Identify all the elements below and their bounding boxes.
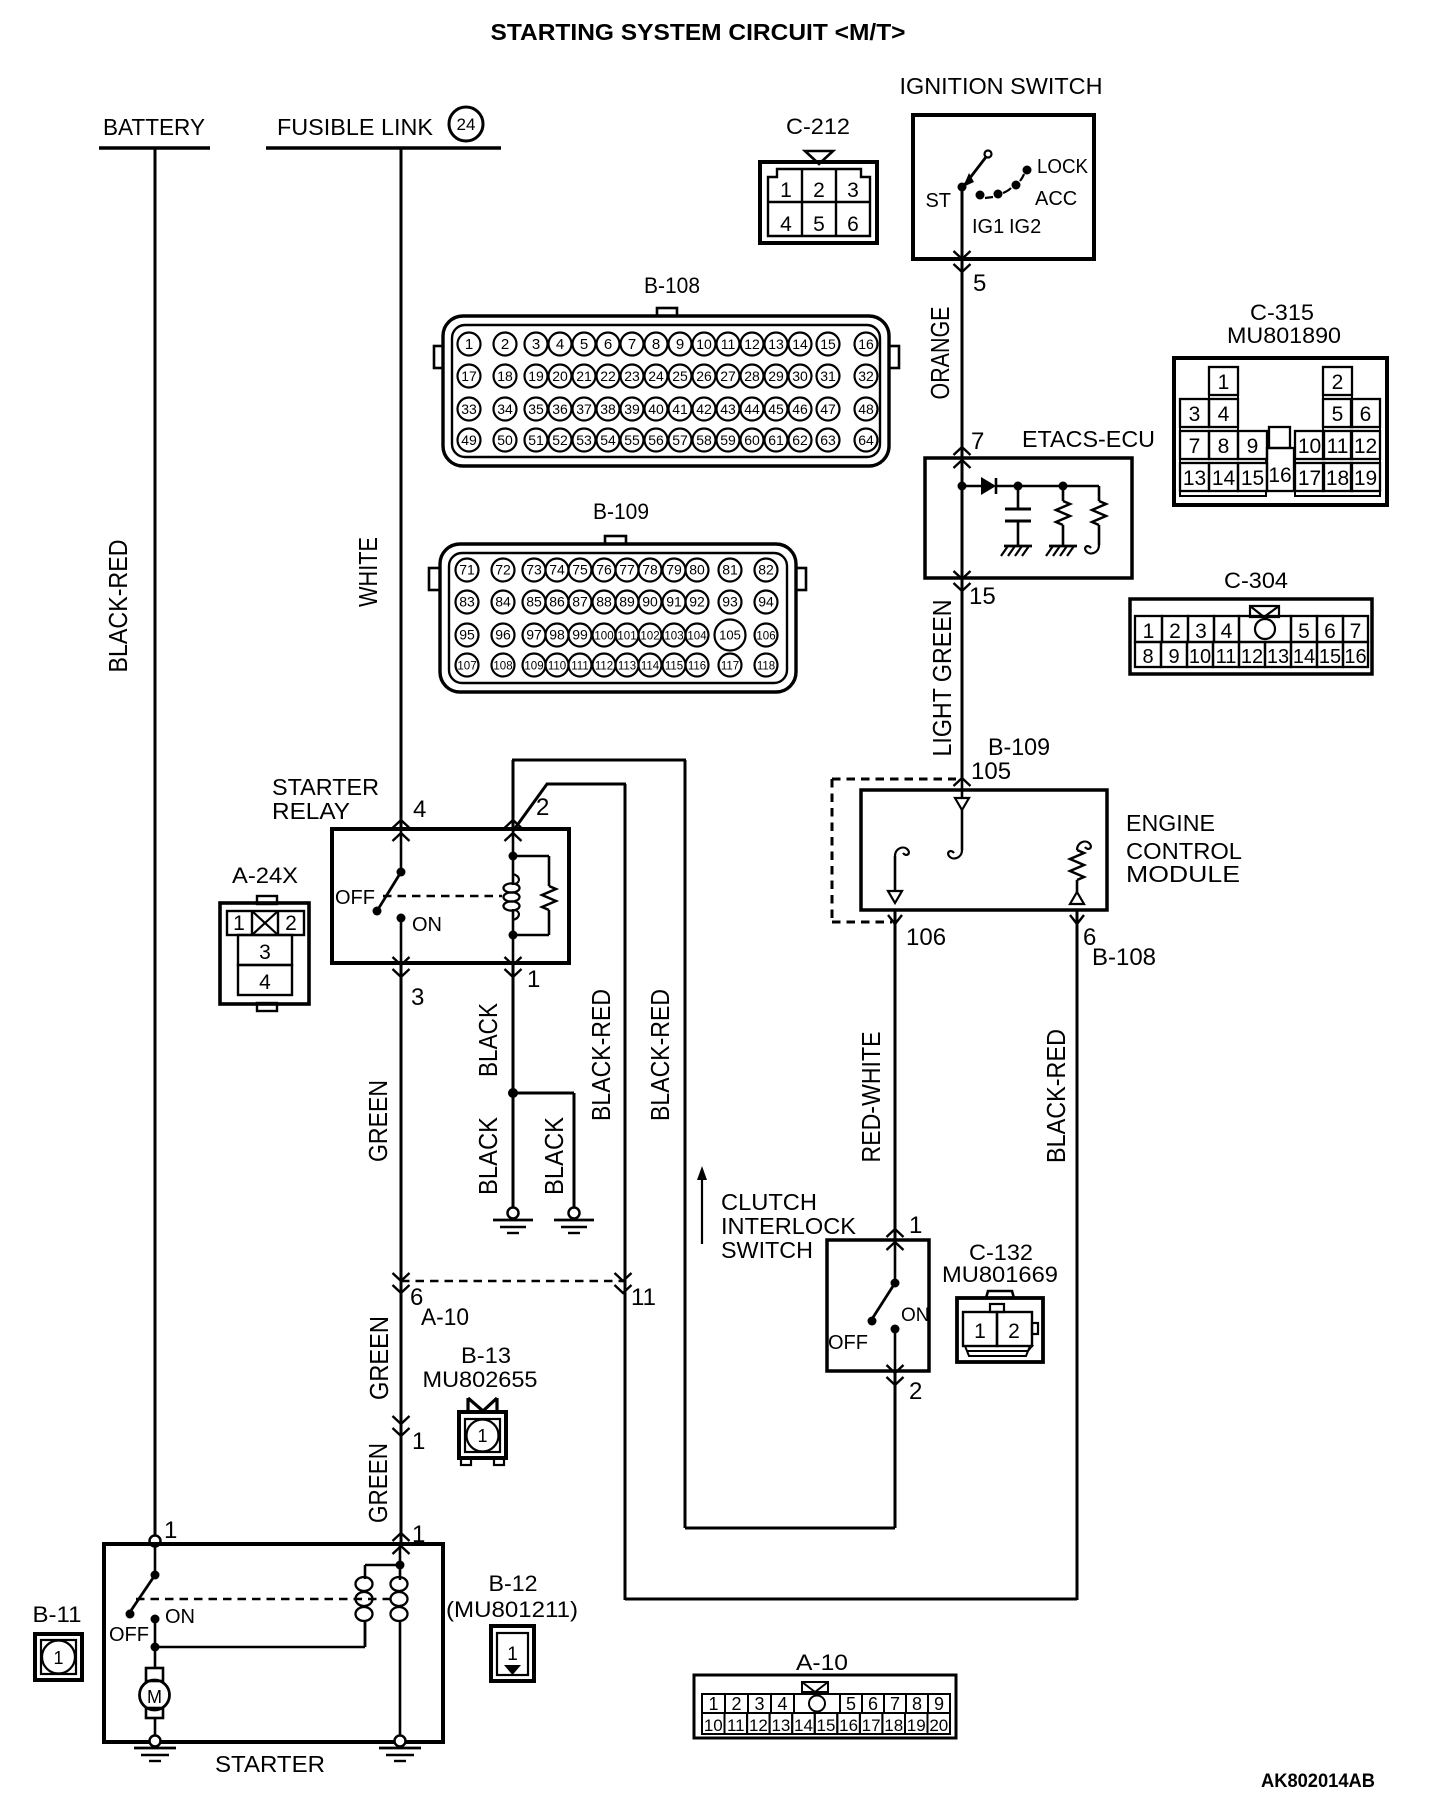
- svg-text:78: 78: [642, 562, 658, 578]
- svg-text:1: 1: [909, 1212, 922, 1239]
- svg-text:5: 5: [1332, 403, 1344, 426]
- wire label BLACK-RED (x=685 rail): [645, 989, 675, 1121]
- svg-text:10: 10: [1298, 435, 1321, 458]
- svg-text:ACC: ACC: [1035, 188, 1077, 210]
- svg-text:62: 62: [792, 432, 808, 448]
- svg-text:8: 8: [912, 1694, 922, 1714]
- svg-text:84: 84: [495, 594, 511, 610]
- svg-text:73: 73: [526, 562, 542, 578]
- svg-text:RED-WHITE: RED-WHITE: [856, 1032, 886, 1163]
- svg-text:5: 5: [813, 213, 825, 236]
- svg-text:2: 2: [1332, 371, 1344, 394]
- ground under right black wire: [554, 1208, 594, 1234]
- svg-text:STARTING SYSTEM CIRCUIT <M/T>: STARTING SYSTEM CIRCUIT <M/T>: [491, 19, 906, 45]
- svg-text:1: 1: [412, 1428, 425, 1455]
- capacitor C1: [1005, 482, 1031, 547]
- svg-text:ORANGE: ORANGE: [925, 307, 955, 400]
- wire relay pin 2 diagonal branch to x=625 rail: [513, 784, 626, 1600]
- svg-text:101: 101: [617, 631, 636, 643]
- svg-text:105: 105: [971, 758, 1011, 785]
- connector B-11: [33, 1602, 83, 1680]
- clutch interlock switch box: [827, 1240, 929, 1371]
- svg-text:IG2: IG2: [1009, 216, 1041, 238]
- svg-text:98: 98: [549, 627, 565, 643]
- svg-text:3: 3: [1189, 403, 1201, 426]
- ground (hatched) under capacitor: [1001, 546, 1032, 556]
- svg-text:24: 24: [648, 368, 664, 384]
- svg-text:113: 113: [618, 661, 636, 673]
- starter switch: [109, 1544, 195, 1652]
- svg-text:19: 19: [528, 368, 544, 384]
- svg-text:27: 27: [720, 368, 736, 384]
- connector B-12 (MU801211): [446, 1571, 578, 1681]
- svg-text:36: 36: [552, 401, 568, 417]
- wire relay pin 1 to ground (BLACK): [512, 963, 515, 1213]
- svg-text:LOCK: LOCK: [1037, 156, 1089, 178]
- svg-text:112: 112: [595, 661, 613, 673]
- svg-text:57: 57: [672, 432, 688, 448]
- svg-text:35: 35: [528, 401, 544, 417]
- svg-text:7: 7: [1189, 435, 1201, 458]
- relay coil parallel resistor: [513, 856, 556, 935]
- wire battery to starter (BLACK-RED): [154, 148, 157, 1539]
- svg-text:109: 109: [524, 661, 543, 673]
- svg-text:B-12: B-12: [489, 1571, 538, 1596]
- svg-text:B-13: B-13: [461, 1343, 511, 1368]
- svg-text:92: 92: [689, 594, 705, 610]
- svg-text:4: 4: [780, 213, 792, 236]
- starter relay box: [332, 829, 569, 963]
- svg-text:38: 38: [600, 401, 616, 417]
- svg-text:7: 7: [628, 336, 636, 353]
- svg-text:M: M: [147, 1687, 162, 1707]
- svg-text:50: 50: [497, 432, 513, 448]
- svg-text:6: 6: [604, 336, 612, 353]
- svg-text:115: 115: [665, 661, 683, 673]
- wire bottom rail x=685 to clutch pin 2: [685, 1527, 895, 1530]
- pin 15 label: [969, 583, 996, 610]
- starter solenoid pull-in coil: [356, 1565, 401, 1647]
- svg-text:RELAY: RELAY: [272, 798, 350, 824]
- svg-text:5: 5: [1298, 620, 1310, 643]
- svg-text:3: 3: [847, 179, 859, 202]
- svg-text:100: 100: [594, 631, 613, 643]
- relay switch (OFF/ON): [335, 829, 442, 963]
- svg-text:15: 15: [969, 583, 996, 610]
- svg-text:15: 15: [1241, 467, 1264, 490]
- svg-text:86: 86: [549, 594, 565, 610]
- svg-text:74: 74: [549, 562, 565, 578]
- A-10 pin 6 label: [410, 1284, 469, 1331]
- svg-text:29: 29: [768, 368, 784, 384]
- svg-text:79: 79: [666, 562, 682, 578]
- svg-text:19: 19: [1354, 467, 1377, 490]
- wire label BLACK-RED (x=625 rail): [586, 989, 616, 1121]
- wire label GREEN (lower): [363, 1443, 393, 1523]
- svg-text:106: 106: [756, 631, 775, 643]
- svg-text:ST: ST: [925, 190, 951, 212]
- wire label BLACK (upper): [473, 1002, 503, 1077]
- clutch switch contacts: [828, 1240, 930, 1371]
- svg-text:3: 3: [532, 336, 540, 353]
- ground under starter solenoid: [379, 1736, 421, 1762]
- svg-text:46: 46: [792, 401, 808, 417]
- svg-text:64: 64: [858, 432, 874, 448]
- svg-text:103: 103: [664, 631, 683, 643]
- svg-text:3: 3: [1195, 620, 1207, 643]
- ground under left black wire: [493, 1208, 533, 1234]
- document number AK802014AB: [1261, 1771, 1375, 1792]
- svg-text:MU802655: MU802655: [423, 1367, 538, 1392]
- svg-text:4: 4: [259, 971, 271, 994]
- svg-text:49: 49: [461, 432, 477, 448]
- svg-text:4: 4: [777, 1694, 787, 1714]
- resistor R2 (to internal circuit): [1085, 486, 1106, 553]
- ECM internal: input 105 contact: [948, 779, 969, 858]
- svg-text:7: 7: [1350, 620, 1362, 643]
- ENGINE CONTROL MODULE label: [1126, 810, 1242, 887]
- svg-text:1: 1: [477, 1426, 487, 1446]
- svg-text:4: 4: [1221, 620, 1233, 643]
- svg-text:2: 2: [285, 912, 297, 935]
- relay internal dashed link: [383, 895, 502, 897]
- svg-text:90: 90: [642, 594, 658, 610]
- STARTER RELAY label: [272, 774, 379, 824]
- svg-text:43: 43: [720, 401, 736, 417]
- svg-text:107: 107: [457, 661, 476, 673]
- svg-text:A-10: A-10: [796, 1650, 848, 1675]
- svg-text:6: 6: [1324, 620, 1336, 643]
- svg-text:16: 16: [858, 336, 874, 352]
- svg-text:56: 56: [648, 432, 664, 448]
- battery terminal: [99, 114, 210, 148]
- svg-text:32: 32: [858, 368, 874, 384]
- svg-text:B-108: B-108: [1092, 944, 1156, 971]
- connector B-13 MU802655: [423, 1343, 538, 1465]
- svg-text:IG1: IG1: [972, 216, 1004, 238]
- svg-text:9: 9: [676, 336, 684, 353]
- wire ETACS pin 15 to ECM B-109 pin 105 (LIGHT GREEN): [954, 571, 971, 779]
- svg-text:82: 82: [758, 562, 774, 578]
- svg-text:63: 63: [820, 432, 836, 448]
- svg-text:3: 3: [754, 1694, 764, 1714]
- svg-text:93: 93: [722, 594, 738, 610]
- svg-text:8: 8: [652, 336, 660, 353]
- svg-text:106: 106: [906, 924, 946, 951]
- svg-text:1: 1: [527, 966, 540, 993]
- svg-text:77: 77: [619, 562, 635, 578]
- svg-text:25: 25: [672, 368, 688, 384]
- svg-text:OFF: OFF: [828, 1332, 868, 1354]
- svg-text:ON: ON: [412, 914, 442, 936]
- relay pin 1 label and exit: [505, 957, 541, 993]
- connector C-212: [760, 114, 877, 243]
- svg-text:53: 53: [576, 432, 592, 448]
- svg-text:20: 20: [929, 1716, 948, 1735]
- svg-text:114: 114: [641, 661, 660, 673]
- svg-text:28: 28: [744, 368, 760, 384]
- svg-text:3: 3: [259, 941, 271, 964]
- svg-text:111: 111: [571, 661, 588, 673]
- svg-text:19: 19: [907, 1716, 926, 1735]
- svg-text:9: 9: [1168, 646, 1179, 668]
- svg-text:60: 60: [744, 432, 760, 448]
- svg-text:9: 9: [1247, 435, 1259, 458]
- connector C-304: [1130, 568, 1372, 674]
- svg-text:3: 3: [411, 984, 424, 1011]
- svg-text:48: 48: [858, 401, 874, 417]
- svg-text:110: 110: [548, 661, 566, 673]
- ground under starter motor: [134, 1736, 176, 1762]
- svg-text:44: 44: [744, 401, 760, 417]
- svg-text:12: 12: [744, 336, 760, 352]
- svg-text:BLACK: BLACK: [473, 1002, 503, 1077]
- relay pin 3 label and exit: [393, 957, 425, 1011]
- splice chevron on green wire: [393, 1416, 426, 1455]
- svg-text:30: 30: [792, 368, 808, 384]
- clutch pin 2 label and exit: [887, 1365, 923, 1405]
- wire switch to solenoid coils: [155, 1621, 365, 1647]
- svg-text:116: 116: [688, 661, 706, 673]
- svg-text:12: 12: [1241, 646, 1263, 668]
- wire bottom rail x=625 to ECM pin 6 rail: [625, 1598, 1077, 1601]
- svg-text:18: 18: [497, 368, 513, 384]
- wire label GREEN (upper): [363, 1080, 393, 1162]
- svg-text:18: 18: [884, 1716, 903, 1735]
- svg-text:13: 13: [1267, 646, 1289, 668]
- svg-text:BLACK-RED: BLACK-RED: [586, 989, 616, 1121]
- svg-text:BATTERY: BATTERY: [103, 114, 205, 140]
- svg-text:4: 4: [1218, 403, 1230, 426]
- ECM internal: resistor to pin 6: [1070, 842, 1091, 904]
- wire label LIGHT GREEN: [927, 600, 957, 757]
- ECM connector boundary (dashed): [832, 778, 971, 922]
- svg-text:BLACK-RED: BLACK-RED: [645, 989, 675, 1121]
- connector A-24X: [220, 863, 309, 1011]
- svg-text:102: 102: [640, 631, 659, 643]
- svg-text:C-315: C-315: [1250, 300, 1314, 325]
- svg-text:14: 14: [792, 336, 808, 352]
- svg-text:FUSIBLE LINK: FUSIBLE LINK: [277, 114, 434, 140]
- svg-text:31: 31: [820, 368, 836, 384]
- svg-text:7: 7: [971, 428, 984, 455]
- ignition switch position contacts: [976, 166, 1032, 200]
- svg-text:34: 34: [497, 401, 513, 417]
- svg-text:47: 47: [820, 401, 836, 417]
- wire label BLACK (lower left): [473, 1116, 503, 1195]
- svg-text:LIGHT GREEN: LIGHT GREEN: [927, 600, 957, 757]
- svg-text:37: 37: [576, 401, 592, 417]
- svg-text:97: 97: [526, 627, 542, 643]
- node: black wire junction: [508, 1088, 518, 1098]
- starter motor M: [140, 1647, 170, 1741]
- connector B-108: [434, 273, 899, 466]
- engine control module box: [861, 790, 1107, 910]
- wire relay pin 2 up/over to x=685 rail: [512, 760, 686, 1528]
- svg-text:16: 16: [1268, 464, 1291, 487]
- svg-text:16: 16: [839, 1716, 858, 1735]
- svg-text:20: 20: [552, 368, 568, 384]
- svg-text:5: 5: [973, 270, 986, 297]
- svg-text:INTERLOCK: INTERLOCK: [721, 1213, 857, 1239]
- svg-text:9: 9: [934, 1694, 944, 1714]
- svg-text:1: 1: [780, 179, 792, 202]
- starter pin 1 (green wire) entry: [393, 1521, 426, 1554]
- svg-text:81: 81: [722, 562, 738, 578]
- CLUTCH INTERLOCK SWITCH label with arrow: [697, 1166, 857, 1263]
- svg-text:11: 11: [1327, 435, 1349, 458]
- svg-text:IGNITION SWITCH: IGNITION SWITCH: [900, 73, 1103, 99]
- svg-text:B-108: B-108: [644, 273, 700, 298]
- wire branch to second ground: [513, 1093, 574, 1213]
- svg-text:MODULE: MODULE: [1126, 861, 1240, 887]
- ignition switch: [900, 73, 1103, 259]
- svg-text:2: 2: [731, 1694, 741, 1714]
- svg-text:STARTER: STARTER: [215, 1751, 325, 1777]
- svg-text:89: 89: [619, 594, 635, 610]
- svg-text:55: 55: [624, 432, 640, 448]
- starter box: [104, 1544, 443, 1742]
- svg-text:BLACK-RED: BLACK-RED: [103, 540, 133, 673]
- svg-text:C-304: C-304: [1224, 568, 1288, 593]
- svg-text:GREEN: GREEN: [363, 1443, 393, 1523]
- svg-text:45: 45: [768, 401, 784, 417]
- svg-text:4: 4: [556, 336, 564, 353]
- connector A-10: [694, 1650, 956, 1738]
- svg-text:24: 24: [457, 115, 476, 134]
- pin 106 label: [906, 924, 946, 951]
- svg-text:OFF: OFF: [109, 1624, 149, 1646]
- svg-text:11: 11: [1216, 646, 1237, 668]
- node: ETACS input junction: [958, 482, 967, 491]
- svg-text:118: 118: [757, 661, 775, 673]
- svg-text:13: 13: [1183, 467, 1206, 490]
- svg-text:16: 16: [1344, 646, 1366, 668]
- svg-text:18: 18: [1326, 467, 1349, 490]
- svg-text:52: 52: [552, 432, 568, 448]
- svg-text:33: 33: [461, 401, 477, 417]
- svg-text:59: 59: [720, 432, 736, 448]
- svg-text:(MU801211): (MU801211): [446, 1597, 578, 1622]
- svg-text:105: 105: [719, 628, 741, 643]
- svg-text:11: 11: [727, 1716, 745, 1735]
- wire clutch pin 2 down to rail: [894, 1371, 897, 1528]
- svg-text:26: 26: [696, 368, 712, 384]
- svg-text:41: 41: [672, 401, 688, 417]
- svg-text:71: 71: [459, 562, 475, 578]
- svg-text:ETACS-ECU: ETACS-ECU: [1022, 426, 1155, 452]
- wire ECM pin 6 to bottom rail (BLACK-RED): [1070, 910, 1084, 1600]
- svg-text:2: 2: [909, 1378, 922, 1405]
- svg-text:6: 6: [868, 1694, 878, 1714]
- svg-text:1: 1: [708, 1694, 718, 1714]
- svg-text:14: 14: [1293, 646, 1315, 668]
- svg-text:7: 7: [890, 1694, 900, 1714]
- wire label BLACK-RED: [103, 540, 133, 673]
- svg-text:1: 1: [53, 1648, 63, 1668]
- wire label GREEN (middle): [364, 1316, 394, 1400]
- svg-text:14: 14: [1212, 467, 1236, 490]
- svg-text:1: 1: [164, 1517, 177, 1544]
- STARTER label: [215, 1751, 325, 1777]
- svg-text:WHITE: WHITE: [353, 537, 383, 607]
- svg-text:21: 21: [576, 368, 592, 384]
- svg-text:17: 17: [1298, 467, 1321, 490]
- svg-text:ENGINE: ENGINE: [1126, 810, 1215, 836]
- connector B-109: [429, 499, 806, 692]
- svg-text:8: 8: [1218, 435, 1230, 458]
- A-10 pin 11 label: [631, 1284, 656, 1311]
- svg-text:8: 8: [1142, 646, 1153, 668]
- svg-text:1: 1: [1218, 371, 1230, 394]
- starter pin 1 (battery cable): [150, 1517, 178, 1547]
- svg-text:17: 17: [862, 1716, 881, 1735]
- starter internal dashed link: [136, 1598, 393, 1600]
- wire label BLACK-RED (right): [1041, 1029, 1071, 1163]
- svg-text:95: 95: [459, 627, 475, 643]
- wire label ORANGE: [925, 307, 955, 400]
- ETACS-ECU label: [1022, 426, 1155, 452]
- wire through ETACS (vertical): [961, 458, 964, 578]
- svg-text:GREEN: GREEN: [364, 1316, 394, 1400]
- ground (hatched) under resistor R1: [1046, 546, 1077, 556]
- svg-text:2: 2: [1008, 1320, 1020, 1343]
- svg-text:80: 80: [689, 562, 705, 578]
- wire ETACS internal top rail: [1018, 485, 1099, 488]
- svg-text:6: 6: [847, 213, 859, 236]
- svg-text:5: 5: [580, 336, 588, 353]
- resistor R1: [1056, 482, 1070, 547]
- junction A-10 (dashed): [393, 1273, 632, 1293]
- pin 7 label: [971, 428, 984, 455]
- svg-text:10: 10: [704, 1716, 723, 1735]
- svg-text:75: 75: [572, 562, 588, 578]
- svg-text:22: 22: [600, 368, 616, 384]
- wire ECM pin 106 to clutch switch pin 1 (RED-WHITE): [887, 910, 904, 1250]
- svg-text:1: 1: [507, 1644, 518, 1665]
- relay pin 2 label and entry: [505, 794, 550, 841]
- svg-text:91: 91: [666, 594, 682, 610]
- svg-text:1: 1: [465, 336, 473, 353]
- svg-text:MU801669: MU801669: [942, 1262, 1058, 1287]
- wire label RED-WHITE: [856, 1032, 886, 1163]
- svg-text:C-212: C-212: [786, 114, 850, 139]
- wire fusible link to starter relay pin 4 (WHITE): [400, 148, 403, 829]
- svg-text:B-109: B-109: [593, 499, 649, 524]
- svg-text:BLACK-RED: BLACK-RED: [1041, 1029, 1071, 1163]
- svg-text:B-109: B-109: [988, 734, 1050, 761]
- connector C-132 MU801669: [942, 1240, 1058, 1362]
- svg-text:76: 76: [596, 562, 612, 578]
- connector C-315 MU801890: [1174, 300, 1387, 505]
- svg-text:72: 72: [495, 562, 511, 578]
- pin 6 / B-108 labels: [1083, 924, 1156, 971]
- svg-text:83: 83: [459, 594, 475, 610]
- svg-text:39: 39: [624, 401, 640, 417]
- svg-text:40: 40: [648, 401, 664, 417]
- svg-text:10: 10: [696, 336, 712, 352]
- svg-text:15: 15: [820, 336, 836, 352]
- svg-text:58: 58: [696, 432, 712, 448]
- fusible link 24 terminal: [266, 107, 501, 148]
- clutch pin 1 label: [909, 1212, 922, 1239]
- svg-text:A-10: A-10: [421, 1304, 469, 1331]
- svg-text:ON: ON: [901, 1305, 930, 1326]
- svg-text:13: 13: [771, 1716, 790, 1735]
- svg-text:SWITCH: SWITCH: [721, 1237, 813, 1263]
- svg-text:CLUTCH: CLUTCH: [721, 1189, 817, 1215]
- svg-text:117: 117: [721, 661, 739, 673]
